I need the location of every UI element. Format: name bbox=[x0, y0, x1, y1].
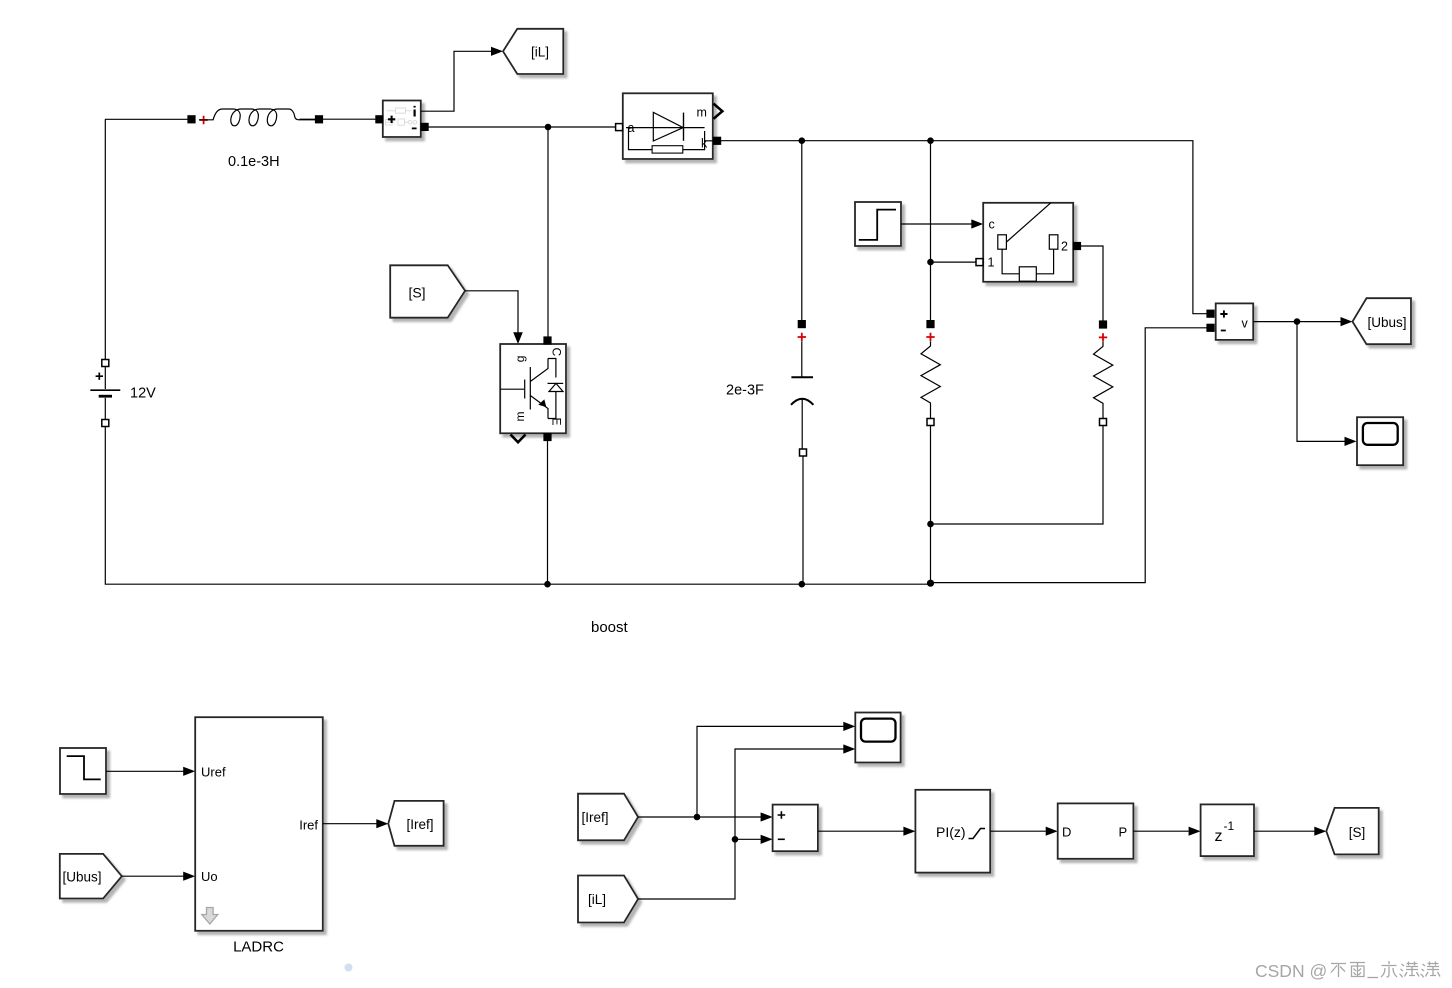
arrowhead into PI bbox=[903, 827, 915, 836]
node: IGBT m chevron bbox=[511, 435, 526, 443]
label 0.1e-3H bbox=[228, 154, 280, 170]
arrowhead into goto S bbox=[1314, 827, 1326, 836]
wire: inductor to current sensor bbox=[300, 118, 377, 120]
svg-text:PI(z): PI(z) bbox=[936, 824, 966, 840]
wire: PI to DP block bbox=[990, 830, 1046, 832]
arrowhead sum - input bbox=[761, 835, 773, 844]
svg-text:1: 1 bbox=[988, 256, 995, 270]
wire: LADRC Iref output bbox=[323, 823, 377, 825]
wire: unit delay to goto S bbox=[1254, 830, 1315, 832]
wire: sum output to PI bbox=[818, 830, 904, 832]
wire: junction down to IGBT collector bbox=[547, 127, 549, 337]
wire: down to capacitor bbox=[801, 141, 803, 321]
wire: capacitor bottom to rail bbox=[802, 456, 804, 584]
wire: source top rail to inductor bbox=[105, 118, 188, 120]
goto tag [Iref] bbox=[388, 801, 443, 846]
from tag [S] bbox=[390, 265, 465, 317]
LADRC subsystem block bbox=[195, 717, 323, 931]
wire: IGBT emitter to rail bbox=[547, 441, 549, 585]
svg-text:0.1e-3H: 0.1e-3H bbox=[228, 154, 280, 170]
svg-text:v: v bbox=[1242, 317, 1249, 331]
wire: step to LADRC Uref bbox=[106, 770, 184, 772]
breaker block bbox=[983, 203, 1073, 282]
wire: step to breaker c bbox=[901, 223, 972, 225]
svg-text:c: c bbox=[989, 218, 995, 232]
svg-text:m: m bbox=[697, 106, 707, 120]
svg-text:[S]: [S] bbox=[1349, 825, 1366, 840]
blue dot artifact bbox=[345, 964, 353, 972]
svg-text:Iref: Iref bbox=[299, 818, 318, 833]
node: inductor right port bbox=[316, 116, 323, 123]
svg-text:z: z bbox=[1215, 828, 1223, 845]
svg-text:2e-3F: 2e-3F bbox=[726, 383, 764, 399]
wire: from S to IGBT gate bbox=[465, 291, 518, 333]
node junction on iL wire bbox=[732, 836, 739, 843]
battery 12V DC source bbox=[90, 367, 120, 420]
capacitor C 2e-3F bbox=[791, 321, 813, 456]
wire: resistor1 bottom to rail bbox=[930, 426, 932, 584]
arrowhead into scope bbox=[1345, 437, 1357, 446]
svg-text:D: D bbox=[1062, 825, 1071, 840]
wire: down to resistor1 bbox=[930, 141, 932, 321]
svg-text:[Iref]: [Iref] bbox=[406, 817, 433, 832]
arrowhead sum + input bbox=[761, 812, 773, 821]
wire: bottom rail right portion bbox=[931, 328, 1208, 583]
wire: breaker port2 to resistor2 top bbox=[1081, 246, 1104, 321]
node: breaker port 2 bbox=[1074, 243, 1081, 250]
label boost bbox=[591, 619, 629, 636]
arrowhead into breaker c bbox=[971, 219, 983, 228]
node junction resistor2 branch bbox=[927, 521, 934, 528]
svg-text:[Iref]: [Iref] bbox=[582, 810, 609, 825]
wire: i output up to goto iL bbox=[421, 51, 491, 111]
wire: junction to resistor2 bottom bbox=[931, 426, 1104, 525]
arrowhead into IGBT gate bbox=[513, 332, 523, 344]
node junction rail jog bbox=[927, 580, 934, 587]
node: current sensor - output port bbox=[421, 123, 428, 130]
goto tag [Ubus] bbox=[1353, 298, 1412, 344]
arrowhead into D bbox=[1046, 827, 1058, 836]
arrowhead scope input1 bbox=[843, 722, 855, 731]
svg-text:boost: boost bbox=[591, 619, 629, 636]
diode D block bbox=[623, 93, 713, 159]
node: breaker port 1 bbox=[976, 259, 983, 266]
svg-text:m: m bbox=[513, 412, 527, 422]
svg-text:12V: 12V bbox=[130, 386, 156, 402]
svg-text:-1: -1 bbox=[1224, 819, 1235, 833]
node: current sensor + input port bbox=[376, 116, 383, 123]
PI(z) controller block bbox=[915, 790, 990, 873]
node junction capacitor at rail bbox=[799, 581, 806, 588]
arrowhead scope input2 bbox=[843, 744, 855, 753]
node junction capacitor top bbox=[799, 137, 806, 144]
label LADRC bbox=[233, 939, 284, 956]
wire: junction down to scope bbox=[1297, 322, 1345, 442]
arrowhead into Uref bbox=[183, 767, 195, 776]
node: diode anode input port bbox=[616, 124, 623, 131]
arrowhead into goto Ubus bbox=[1341, 317, 1353, 326]
node: red plus polarity mark at inductor bbox=[199, 116, 207, 124]
voltage measurement block v bbox=[1216, 303, 1254, 340]
svg-text:[Ubus]: [Ubus] bbox=[63, 870, 102, 885]
from tag [iL] bottom bbox=[578, 876, 638, 923]
svg-text:[Ubus]: [Ubus] bbox=[1367, 315, 1406, 330]
sum block bbox=[773, 805, 818, 852]
label 12V bbox=[130, 386, 156, 402]
arrowhead into unit delay bbox=[1189, 827, 1201, 836]
wire: voltmeter output bbox=[1253, 321, 1341, 323]
svg-text:Uref: Uref bbox=[201, 765, 226, 780]
node: inductor left port bbox=[188, 116, 195, 123]
inductor L 0.1e-3H bbox=[199, 109, 315, 126]
wire: junction to breaker port1 bbox=[931, 261, 977, 263]
node junction resistor1 top bbox=[927, 137, 934, 144]
svg-text:[iL]: [iL] bbox=[531, 45, 549, 60]
node: battery - port bbox=[102, 420, 109, 427]
svg-text:[iL]: [iL] bbox=[588, 892, 606, 907]
from tag [Iref] bbox=[578, 794, 638, 841]
wire: current sensor to diode node bbox=[428, 126, 616, 128]
scope block top right bbox=[1357, 417, 1403, 465]
wire: from Iref to sum bbox=[638, 816, 767, 818]
svg-text:CSDN @: CSDN @ bbox=[1255, 961, 1327, 981]
wire: junction up to scope input1 bbox=[697, 726, 849, 817]
svg-text:P: P bbox=[1119, 825, 1128, 840]
IGBT block bbox=[500, 344, 566, 433]
goto tag [S] bbox=[1326, 808, 1378, 855]
from tag [Ubus] bottom bbox=[60, 854, 122, 899]
node junction voltmeter output bbox=[1294, 318, 1301, 325]
wire: DP to unit delay bbox=[1133, 830, 1188, 832]
node junction on resistor1 branch bbox=[927, 259, 934, 266]
node: diode cathode output port bbox=[714, 137, 721, 144]
arrowhead into goto iL bbox=[491, 47, 503, 56]
step source for LADRC Uref bbox=[60, 748, 106, 794]
current measurement block i bbox=[383, 101, 421, 138]
node junction on Iref wire bbox=[694, 814, 701, 821]
svg-text:C: C bbox=[550, 348, 564, 357]
unit delay z-1 block bbox=[1201, 804, 1254, 856]
svg-text:2: 2 bbox=[1061, 240, 1068, 254]
node junction IGBT emitter at rail bbox=[544, 581, 551, 588]
arrowhead into Uo bbox=[183, 872, 195, 881]
svg-text:[S]: [S] bbox=[408, 285, 425, 301]
goto tag [iL] bbox=[503, 29, 563, 74]
node: diode m measurement chevron bbox=[714, 104, 723, 119]
wire: from iL up to scope input2 bbox=[638, 749, 849, 899]
watermark CSDN bbox=[1255, 961, 1440, 981]
label 2e-3F bbox=[726, 383, 764, 399]
node: voltmeter + port bbox=[1207, 310, 1214, 317]
wire: diode cathode top rail bbox=[721, 141, 1207, 314]
D to P block bbox=[1058, 803, 1134, 858]
wire: battery minus down to bottom rail bbox=[105, 427, 930, 585]
step source for breaker bbox=[855, 202, 901, 246]
wire: junction to sum - input bbox=[735, 838, 761, 840]
node: battery + port bbox=[102, 360, 109, 367]
node junction at IGBT collector branch bbox=[545, 124, 552, 131]
wire: from Ubus to LADRC Uo bbox=[122, 875, 184, 877]
resistor R2 bbox=[1094, 321, 1113, 426]
node: IGBT emitter port bbox=[544, 434, 551, 441]
node: IGBT collector port bbox=[544, 337, 551, 344]
resistor R1 bbox=[921, 321, 940, 426]
arrowhead into goto Iref bbox=[376, 819, 388, 828]
svg-text:LADRC: LADRC bbox=[233, 939, 284, 956]
wire: left vertical from top corner to battery bbox=[104, 119, 106, 359]
node: voltmeter - port bbox=[1207, 324, 1214, 331]
svg-text:Uo: Uo bbox=[201, 869, 218, 884]
svg-text:g: g bbox=[513, 356, 527, 363]
scope block bottom bbox=[855, 713, 900, 763]
